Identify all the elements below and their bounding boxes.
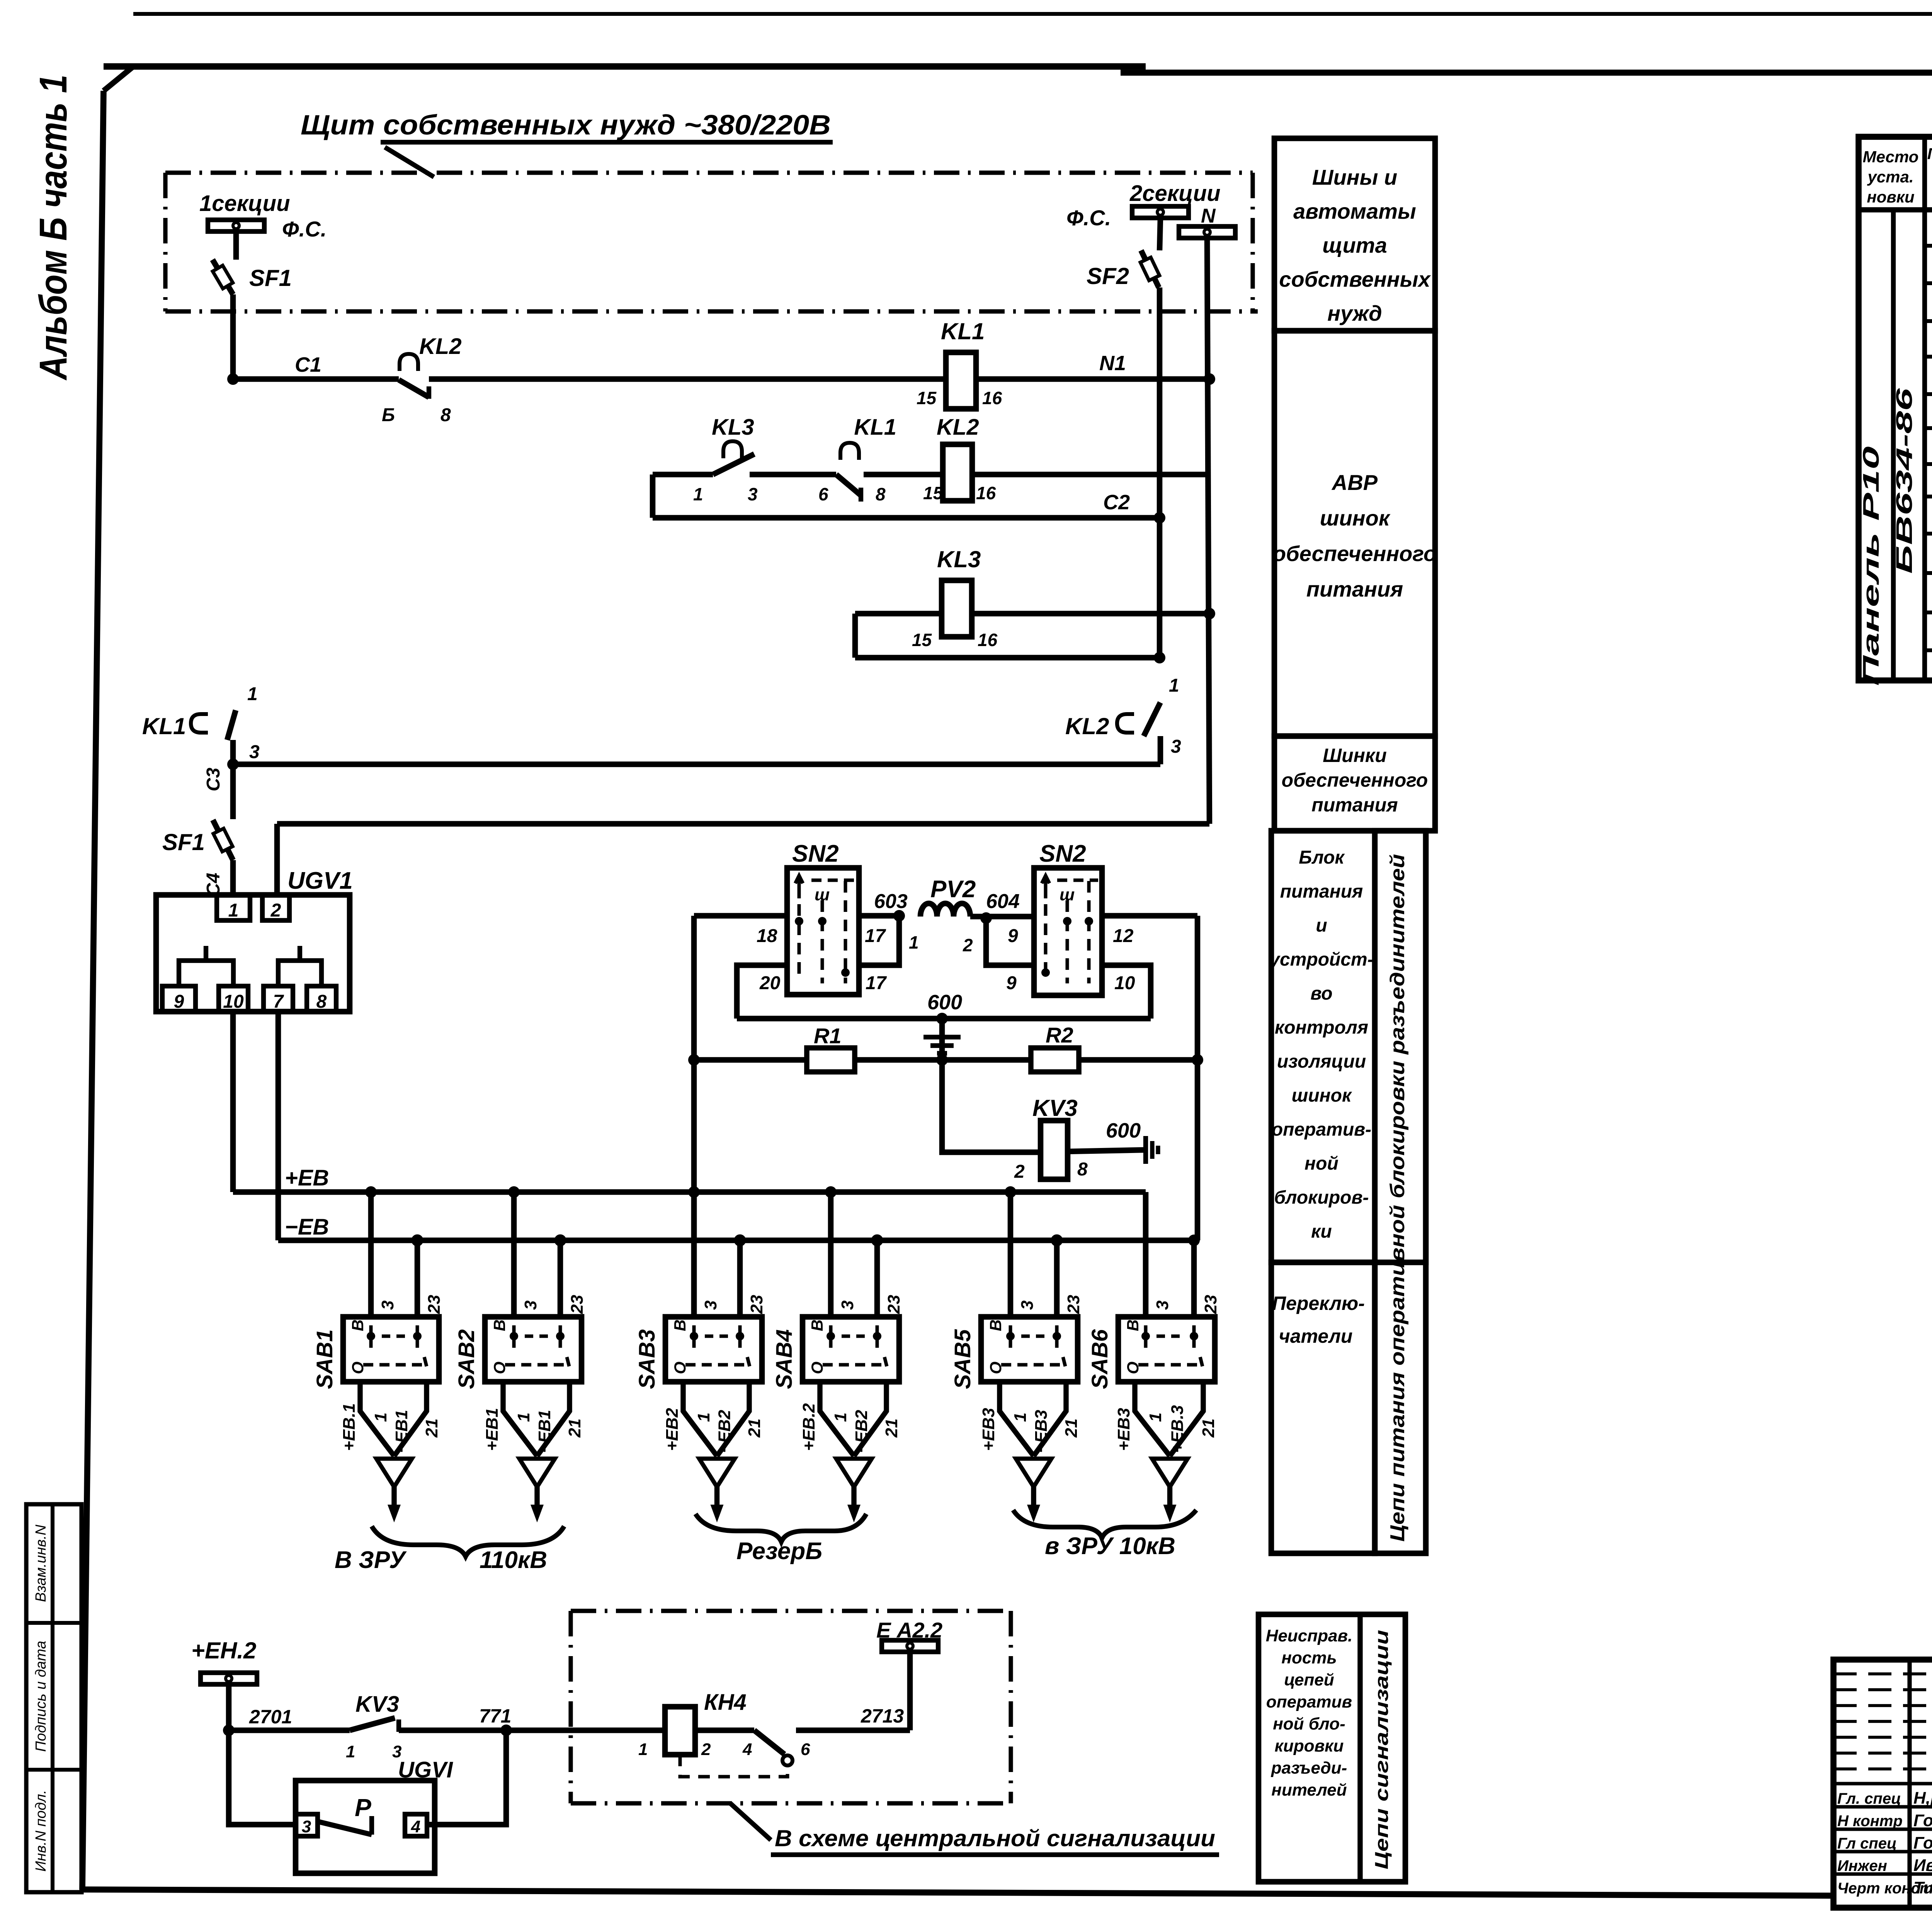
svg-text:ной бло-: ной бло- [1273, 1714, 1345, 1733]
svg-text:питания: питания [1311, 794, 1398, 816]
node C1 junction [227, 373, 239, 385]
svg-text:устройст-: устройст- [1269, 949, 1373, 970]
svg-text:чатели: чатели [1279, 1325, 1353, 1347]
wire row2 left corner vertical [650, 474, 656, 518]
wire return row y=1978 to left column [233, 762, 1160, 767]
busbar tap section 1 [208, 220, 264, 231]
svg-text:О: О [1124, 1362, 1142, 1374]
wire -EB to SAB1 pin23 [415, 1240, 420, 1317]
wire +EB to SAB5 pin3 [1008, 1192, 1014, 1317]
svg-text:3: 3 [378, 1301, 397, 1310]
right sub-column outline [1375, 831, 1426, 1553]
function box: Переключатели [1271, 1262, 1375, 1553]
wire busbar ФС to SF2 [1160, 218, 1160, 250]
svg-text:21: 21 [1199, 1418, 1218, 1438]
svg-text:23: 23 [1064, 1295, 1083, 1314]
switch SAB3 [665, 1317, 762, 1382]
svg-text:UGV1: UGV1 [287, 867, 353, 894]
wire row2 start [653, 472, 713, 478]
svg-text:2: 2 [963, 935, 973, 955]
switch SAB2 [485, 1317, 582, 1382]
svg-text:3: 3 [302, 1817, 311, 1836]
wire -EB to SAB5 pin23 [1054, 1240, 1060, 1317]
svg-text:SAB2: SAB2 [454, 1329, 479, 1389]
node N1 junction [1204, 373, 1215, 385]
svg-text:8: 8 [440, 405, 451, 425]
svg-text:2секции: 2секции [1129, 181, 1221, 206]
svg-text:C1: C1 [295, 353, 321, 376]
wire busbar1 to SF1 [233, 231, 239, 260]
svg-text:БВ634-86: БВ634-86 [1892, 388, 1917, 574]
svg-text:ность: ность [1281, 1648, 1337, 1667]
wire +EH.2 down [226, 1684, 232, 1730]
node 604 [980, 912, 992, 924]
UGV1 pin 7 box [264, 986, 293, 1012]
svg-text:600: 600 [927, 991, 962, 1014]
svg-text:15: 15 [923, 483, 944, 503]
leader line to signalling note [730, 1803, 771, 1840]
brace under SAB3-SAB4 [696, 1514, 866, 1542]
svg-text:+ЕВ3: +ЕВ3 [979, 1408, 998, 1451]
title block signature rows [1833, 1782, 1932, 1786]
busbar tap section 2 (Ф.С.) [1132, 206, 1189, 218]
function box: Неисправность цепей оперативной блокировки [1259, 1614, 1405, 1882]
svg-text:Тимофеева: Тимофеева [1913, 1878, 1932, 1897]
node +EB / SAB1 [365, 1186, 377, 1198]
node 771 [500, 1725, 512, 1736]
switch SN2 right block [1034, 868, 1102, 995]
corner +EB down to SAB6 [1143, 1192, 1149, 1317]
wire KV3 to ground 600 [1068, 1150, 1145, 1151]
svg-text:23: 23 [884, 1295, 903, 1314]
rail -EB [278, 1238, 1194, 1243]
wire R row (R1 R2) [694, 1057, 1197, 1063]
svg-text:R2: R2 [1046, 1023, 1073, 1047]
svg-text:N1: N1 [1099, 352, 1126, 375]
svg-text:Шины и: Шины и [1312, 165, 1397, 189]
contact KV3 (bottom) [350, 1718, 395, 1730]
svg-text:В схеме центральной сигнализа: В схеме центральной сигнализации [775, 1825, 1215, 1851]
node +EB / SAB2 [508, 1186, 520, 1198]
svg-text:1: 1 [228, 900, 239, 921]
switch SN2 left block [787, 868, 859, 995]
svg-text:17: 17 [865, 926, 886, 946]
underline of signalling note [771, 1852, 1219, 1857]
contact KH4 (4-6) [754, 1730, 784, 1754]
wire N1 KL1 coil to right [976, 376, 1209, 382]
wire KH4 to contact [695, 1728, 754, 1733]
wire C1 row left part [233, 376, 399, 382]
dash-dot boundary of own-needs board (section 1-2) [165, 170, 1253, 175]
wire KL3 coil row left [855, 611, 942, 617]
node 600 [936, 1013, 948, 1024]
svg-text:4: 4 [742, 1740, 752, 1759]
wire row2 mid [750, 472, 836, 478]
svg-text:SN2: SN2 [792, 840, 839, 867]
relay coil KV3 [1041, 1121, 1068, 1179]
SAB1 output funnel [360, 1382, 427, 1456]
svg-text:+ЕВ.3: +ЕВ.3 [1168, 1405, 1187, 1453]
SAB4 output arrow [851, 1487, 856, 1506]
svg-text:разъеди-: разъеди- [1271, 1759, 1347, 1777]
relay coil KH4 [665, 1707, 695, 1755]
svg-text:АВР: АВР [1331, 470, 1378, 495]
SAB2 output arrow [534, 1487, 539, 1506]
svg-text:21: 21 [745, 1418, 764, 1438]
svg-text:1: 1 [1169, 675, 1179, 696]
svg-text:3: 3 [521, 1301, 540, 1310]
svg-text:В: В [490, 1320, 509, 1331]
SAB1 internal contacts [363, 1325, 427, 1366]
svg-text:SF2: SF2 [1087, 263, 1129, 289]
wire 604 to SN2 right [970, 914, 1034, 920]
svg-text:771: 771 [479, 1705, 511, 1727]
svg-text:SN2: SN2 [1039, 840, 1086, 867]
wire lower return row y=1702 [855, 655, 1160, 661]
node 603 [893, 910, 905, 922]
svg-text:+ЕВ.2: +ЕВ.2 [799, 1403, 818, 1451]
svg-text:+ЕВ2: +ЕВ2 [663, 1408, 682, 1451]
svg-text:контроля: контроля [1275, 1017, 1368, 1038]
svg-text:23: 23 [1201, 1295, 1220, 1314]
svg-text:SAB1: SAB1 [312, 1329, 337, 1389]
svg-text:Альбом Б часть 1: Альбом Б часть 1 [32, 75, 75, 381]
svg-text:9: 9 [174, 992, 184, 1012]
SAB2 output triangle [519, 1459, 555, 1487]
table row lines [1925, 244, 1932, 248]
svg-text:1: 1 [831, 1413, 850, 1422]
svg-text:новки: новки [1867, 188, 1914, 206]
SAB6 internal contacts [1138, 1325, 1202, 1366]
title block outer [1833, 1660, 1932, 1908]
svg-text:R1: R1 [814, 1024, 842, 1048]
wire cluster right vertical [1195, 916, 1201, 1240]
node -EB at right vertical [1188, 1235, 1200, 1246]
wire to KV3 relay [942, 1060, 1041, 1152]
svg-text:KL1: KL1 [142, 713, 186, 739]
svg-text:18: 18 [757, 926, 777, 946]
svg-text:в ЗРУ 10кВ: в ЗРУ 10кВ [1045, 1533, 1175, 1560]
svg-text:6: 6 [818, 484, 828, 504]
SAB5 output arrow [1031, 1487, 1036, 1506]
svg-text:ш: ш [815, 885, 830, 904]
svg-text:2: 2 [701, 1740, 711, 1759]
wire SN2-right pin10 loop [1102, 965, 1151, 1019]
node on N column at KL3 row [1204, 608, 1215, 619]
wire cluster left vertical (to SAB3 feed) [691, 916, 697, 1317]
wire +EH.2 node to UGVI pin3 [229, 1730, 296, 1825]
svg-text:PV2: PV2 [930, 876, 976, 903]
node -EB / SAB1 [413, 1236, 422, 1245]
relay coil KL2 [943, 444, 972, 501]
svg-text:604: 604 [986, 890, 1020, 913]
breaker SF1 (top) [213, 260, 233, 294]
svg-text:2713: 2713 [861, 1705, 904, 1727]
svg-text:−ЕВ2: −ЕВ2 [852, 1410, 871, 1453]
svg-text:уста.: уста. [1867, 168, 1913, 186]
svg-text:9: 9 [1006, 973, 1017, 993]
svg-text:KL1: KL1 [941, 318, 985, 344]
svg-text:4: 4 [411, 1817, 420, 1836]
SAB3 output funnel [683, 1382, 749, 1456]
SAB4 output triangle [836, 1459, 872, 1487]
node +EB / SAB5 [1005, 1186, 1016, 1198]
svg-text:питания: питания [1306, 577, 1403, 601]
svg-text:Неисправ.: Неисправ. [1266, 1626, 1353, 1645]
svg-text:КН4: КН4 [704, 1690, 747, 1715]
wire SN2-left top link [694, 913, 787, 919]
SAB6 output triangle [1152, 1459, 1188, 1487]
svg-text:UGVI: UGVI [398, 1757, 454, 1782]
svg-text:21: 21 [882, 1418, 901, 1438]
wire +EB to SAB4 pin3 [828, 1192, 834, 1317]
wire UGVI pin4 to node 771 [427, 1730, 506, 1825]
wire SF1 down to node C1 [230, 294, 236, 379]
svg-text:KV3: KV3 [355, 1692, 399, 1717]
divider of signalling function box [1357, 1614, 1362, 1882]
wire row2 to KL2 coil [864, 472, 943, 478]
svg-text:В: В [986, 1320, 1005, 1331]
svg-text:3: 3 [1153, 1301, 1172, 1310]
svg-text:Переклю-: Переклю- [1272, 1293, 1365, 1314]
SN2 left contact dots [795, 917, 803, 925]
svg-text:2: 2 [270, 900, 281, 921]
svg-text:2701: 2701 [249, 1706, 292, 1728]
svg-text:1: 1 [371, 1413, 390, 1422]
svg-text:15: 15 [912, 630, 932, 650]
SAB3 output arrow [714, 1487, 719, 1506]
svg-text:Взам.инв.N: Взам.инв.N [33, 1524, 49, 1602]
SAB6 output funnel [1135, 1382, 1203, 1456]
svg-text:кировки: кировки [1275, 1736, 1344, 1755]
svg-text:В: В [349, 1320, 367, 1331]
dashed link KH4 coil to contact [680, 1755, 787, 1777]
svg-text:Гл. спец: Гл. спец [1837, 1790, 1901, 1807]
svg-text:2: 2 [1014, 1162, 1025, 1182]
svg-text:−ЕВ3: −ЕВ3 [1032, 1410, 1051, 1453]
svg-text:Место: Место [1863, 148, 1919, 166]
wire C2 row [653, 515, 1160, 521]
brace under SAB1-SAB2 [372, 1526, 564, 1556]
svg-text:KL2: KL2 [1065, 713, 1109, 739]
svg-text:Н,ритин: Н,ритин [1913, 1789, 1932, 1808]
svg-text:В: В [1124, 1320, 1142, 1331]
svg-text:обеспеченного: обеспеченного [1273, 541, 1437, 566]
switch SAB5 [981, 1317, 1078, 1382]
svg-text:О: О [986, 1362, 1005, 1374]
svg-text:Б: Б [382, 405, 395, 425]
svg-text:питания: питания [1280, 881, 1363, 902]
svg-text:KV3: KV3 [1032, 1095, 1078, 1121]
svg-text:Цепи сигнализации: Цепи сигнализации [1372, 1630, 1392, 1869]
svg-text:РезерБ: РезерБ [736, 1538, 822, 1565]
power supply unit UGVI (bottom) box [296, 1781, 435, 1873]
wire node771 into box to KH4 [506, 1728, 665, 1733]
svg-text:603: 603 [874, 890, 908, 913]
svg-text:600: 600 [1106, 1119, 1141, 1142]
node +EB / SAB3 [688, 1186, 700, 1198]
wire SN2-right pin9 lower loop [986, 918, 1034, 965]
SAB3 internal contacts [685, 1325, 750, 1366]
contact KL1 (left column) [191, 714, 208, 733]
SAB4 output funnel [820, 1382, 886, 1456]
function box: АВР шинок обеспеченного питания [1274, 331, 1435, 736]
border frame top [104, 63, 1146, 70]
svg-text:Ф.С.: Ф.С. [1066, 206, 1111, 230]
svg-text:1: 1 [1146, 1413, 1165, 1422]
svg-text:Горелик: Горелик [1913, 1833, 1932, 1852]
node R row left [688, 1054, 700, 1066]
svg-text:KL1: KL1 [854, 415, 896, 440]
brace under SAB5-SAB6 [1013, 1510, 1196, 1538]
resistor R2 [1031, 1048, 1079, 1072]
node -EB / SAB3 [736, 1236, 744, 1245]
svg-text:−ЕВ2: −ЕВ2 [715, 1410, 734, 1453]
svg-text:Цепи питания оперативной блоки: Цепи питания оперативной блокировки разъ… [1386, 854, 1409, 1542]
svg-text:9: 9 [1008, 926, 1018, 946]
contact KL1 (row2) [840, 443, 859, 460]
wire UGV1 pin7 down to -EB [276, 1012, 281, 1240]
svg-text:О: О [671, 1362, 689, 1374]
wire SN2-left pin17 to node 603 [859, 913, 899, 919]
switch SAB1 [343, 1317, 439, 1382]
wire feed to UGV1 pin2 from N column [274, 824, 280, 895]
svg-text:1: 1 [247, 684, 258, 704]
wire SN2-left pin20 loop [737, 965, 787, 1019]
ground at node 600 [940, 1019, 944, 1037]
border frame top right segment [1121, 70, 1932, 76]
svg-text:О: О [808, 1362, 826, 1374]
wire to KV3 contact [229, 1728, 350, 1733]
underline of board label [381, 140, 833, 145]
svg-text:−ЕВ1: −ЕВ1 [535, 1410, 554, 1453]
svg-text:изоляции: изоляции [1277, 1051, 1366, 1072]
wire +EB to SAB1 pin3 [368, 1192, 374, 1317]
divider of lower function column [1372, 831, 1377, 1553]
wire right vertical down to SAB6 pin23 [1191, 1240, 1197, 1317]
wire row2 right to N column [972, 472, 1209, 478]
busbar tap section 2 N [1179, 226, 1235, 238]
svg-text:ки: ки [1311, 1221, 1332, 1242]
svg-text:8: 8 [876, 484, 886, 504]
svg-text:Панель Р10: Панель Р10 [1859, 446, 1884, 686]
SN2 right contact dots [1063, 917, 1071, 925]
svg-text:+ЕН.2: +ЕН.2 [191, 1638, 256, 1663]
SAB4 internal contacts [823, 1325, 887, 1366]
svg-text:SAB6: SAB6 [1087, 1329, 1112, 1389]
svg-text:собственных: собственных [1279, 267, 1431, 291]
switch SAB4 [803, 1317, 899, 1382]
svg-text:23: 23 [747, 1295, 766, 1314]
SAB5 internal contacts [1001, 1325, 1065, 1366]
ground symbol right of KV3 [1143, 1136, 1148, 1164]
function box: Шинки обеспеченного питания [1274, 736, 1435, 831]
svg-text:SAB4: SAB4 [772, 1329, 797, 1389]
svg-text:20: 20 [759, 973, 781, 993]
wire up to EA2.2 [907, 1651, 913, 1730]
svg-text:1: 1 [346, 1742, 355, 1761]
voltmeter PV2 coil [920, 903, 970, 917]
node +EB / SAB4 [825, 1186, 837, 1198]
svg-text:3: 3 [249, 742, 260, 762]
relay coil KL1 [946, 352, 976, 409]
table column lines [1891, 210, 1896, 680]
svg-text:Инв.N подл.: Инв.N подл. [33, 1790, 49, 1872]
UGVI internal contact [318, 1821, 372, 1835]
svg-text:6: 6 [801, 1740, 810, 1759]
wire node-600 row [737, 1016, 1151, 1022]
svg-text:21: 21 [422, 1418, 441, 1438]
svg-text:+ЕВ.1: +ЕВ.1 [340, 1403, 359, 1451]
svg-text:ной: ной [1304, 1153, 1338, 1174]
svg-text:21: 21 [1062, 1418, 1081, 1438]
SAB1 output arrow [391, 1487, 396, 1506]
wire +EB to SAB3 pin3 [691, 1192, 697, 1317]
svg-text:щита: щита [1322, 233, 1387, 257]
svg-text:SF1: SF1 [249, 265, 292, 291]
svg-text:SAB5: SAB5 [950, 1329, 975, 1389]
wire C1 row to KL1 coil [429, 376, 946, 382]
svg-text:ш: ш [1060, 885, 1075, 904]
UGV1 pin 10 box [219, 986, 248, 1012]
svg-text:8: 8 [1077, 1159, 1088, 1180]
svg-text:О: О [490, 1362, 509, 1374]
wire UGV1 pin10 down to +EB [230, 1012, 236, 1192]
UGV1 pin 9 box [162, 986, 196, 1012]
node on C2 column at y=1702 [1154, 652, 1165, 663]
svg-text:Блок: Блок [1299, 847, 1345, 868]
svg-text:21: 21 [565, 1418, 584, 1438]
UGVI pin 4 box [405, 1814, 427, 1836]
svg-text:1: 1 [514, 1413, 533, 1422]
wire KL3 coil row right [972, 611, 1209, 617]
node -EB / SAB4 [873, 1236, 881, 1245]
table outer frame [1859, 137, 1932, 680]
svg-text:Шинки: Шинки [1323, 745, 1387, 766]
svg-text:+ЕВ: +ЕВ [285, 1165, 329, 1190]
svg-text:17: 17 [866, 973, 887, 993]
svg-text:−ЕВ: −ЕВ [285, 1214, 329, 1240]
UGV1 pin 8 box [307, 986, 336, 1012]
node -EB / SAB2 [556, 1236, 565, 1245]
busbar +EH.2 [201, 1673, 257, 1684]
title block signature columns [1907, 1660, 1912, 1908]
border frame top-left corner diagonal [104, 66, 133, 91]
wire -EB to SAB2 pin23 [558, 1240, 563, 1317]
svg-text:1: 1 [693, 484, 703, 504]
contact KL3 (row2) [723, 441, 742, 458]
svg-text:Подпись и дата: Подпись и дата [33, 1641, 49, 1752]
SAB5 output triangle [1016, 1459, 1051, 1487]
svg-text:шинок: шинок [1320, 506, 1391, 530]
svg-text:7: 7 [273, 992, 284, 1012]
busbar EA2.2 [882, 1640, 938, 1652]
svg-text:−ЕВ1: −ЕВ1 [392, 1410, 411, 1453]
SAB3 output triangle [699, 1459, 735, 1487]
wire +EB to SAB2 pin3 [511, 1192, 517, 1317]
wire node600 to R row [939, 1019, 945, 1060]
svg-text:обеспеченного: обеспеченного [1282, 769, 1428, 791]
node -EB / SAB5 [1053, 1236, 1061, 1245]
svg-text:10: 10 [1114, 973, 1135, 993]
rail +EB [233, 1189, 1146, 1195]
svg-text:В ЗРУ: В ЗРУ [335, 1547, 407, 1573]
UGV1 internal bracket pins 7-8 [278, 961, 321, 986]
wire KL3 row left corner down [852, 614, 858, 658]
SAB2 internal contacts [505, 1325, 569, 1366]
wire contact to node 2713 [796, 1728, 910, 1733]
function box: Блок питания и устройство контроля изоляции [1271, 831, 1426, 1262]
